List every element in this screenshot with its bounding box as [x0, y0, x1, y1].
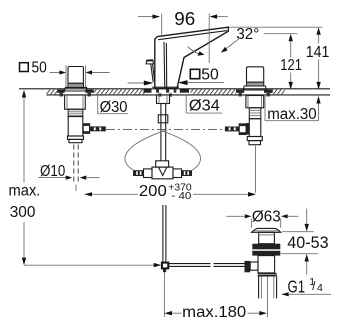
svg-text:4: 4 [317, 282, 323, 294]
svg-text:121: 121 [280, 57, 302, 74]
svg-text:50: 50 [201, 67, 219, 84]
svg-text:200: 200 [139, 183, 167, 200]
svg-text:96: 96 [174, 9, 195, 29]
svg-text:Ø30: Ø30 [100, 99, 128, 116]
svg-text:- 40: - 40 [171, 190, 191, 202]
svg-text:max.180: max.180 [182, 304, 246, 321]
svg-text:max.: max. [9, 182, 41, 199]
svg-text:32°: 32° [236, 26, 259, 43]
svg-text:50: 50 [32, 59, 48, 76]
svg-text:max.30: max.30 [267, 106, 317, 123]
svg-text:40-53: 40-53 [287, 234, 328, 252]
svg-text:Ø63: Ø63 [252, 208, 281, 225]
svg-text:300: 300 [10, 204, 36, 221]
svg-text:141: 141 [306, 44, 330, 61]
svg-text:G1: G1 [288, 277, 306, 297]
svg-text:Ø34: Ø34 [189, 97, 220, 114]
